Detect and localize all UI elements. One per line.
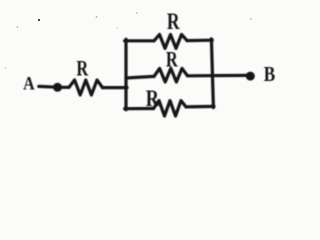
svg-text:B: B bbox=[264, 64, 276, 87]
resistor R4 (bottom branch) bbox=[154, 101, 187, 116]
svg-text:R: R bbox=[166, 47, 179, 72]
wire top-left segment bbox=[125, 39, 154, 42]
wire A to junction bbox=[39, 85, 57, 89]
junction dot at B side bbox=[246, 72, 255, 81]
junction dot at A side bbox=[53, 83, 62, 92]
node: right edge of parallel network bbox=[211, 39, 213, 108]
wire top-right segment bbox=[187, 39, 212, 43]
svg-text:R: R bbox=[167, 10, 181, 35]
resistor R1 (series) bbox=[69, 80, 103, 95]
svg-text:A: A bbox=[23, 73, 35, 93]
wire bottom-right segment bbox=[186, 105, 214, 109]
wire middle branch to node B dot bbox=[188, 74, 248, 78]
resistor R2 (top branch) bbox=[154, 35, 187, 49]
node: left edge of parallel network bbox=[124, 39, 127, 110]
svg-text:R: R bbox=[146, 87, 160, 111]
wire bottom-left segment bbox=[125, 107, 154, 110]
svg-text:R: R bbox=[76, 57, 89, 81]
wire R1 to box left edge bbox=[103, 86, 128, 89]
speckle marks (scan noise) bbox=[5, 12, 252, 69]
resistor R3 (middle branch) bbox=[154, 68, 188, 82]
wire junction to resistor R1 bbox=[58, 86, 70, 89]
wire middle-left segment bbox=[126, 76, 154, 78]
